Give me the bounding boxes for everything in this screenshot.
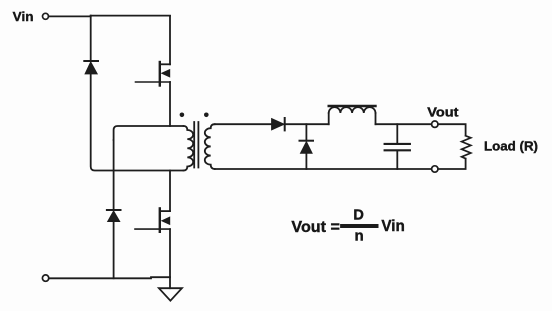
wire left branch to primary bottom lead bbox=[91, 74, 184, 171]
wire D4 branch bbox=[305, 124, 307, 141]
wire left branch upper bbox=[90, 16, 92, 61]
svg-text:Load (R): Load (R) bbox=[484, 138, 538, 153]
wire D4 to bottom lead bbox=[305, 153, 307, 169]
transistor Q2 bbox=[135, 208, 170, 231]
ground bbox=[159, 288, 182, 301]
svg-text:Vin: Vin bbox=[13, 9, 34, 24]
svg-text:D: D bbox=[353, 207, 363, 223]
diode D1 bbox=[84, 61, 98, 74]
terminal Vout- bbox=[432, 166, 438, 172]
terminal Vout+ bbox=[432, 121, 438, 127]
transformer T1 secondary winding bbox=[205, 124, 215, 169]
wire capacitor bottom lead bbox=[396, 151, 398, 169]
wire bottom rail bbox=[49, 277, 170, 278]
polarity dot secondary bbox=[204, 113, 209, 118]
terminal Vin+ bbox=[43, 13, 49, 19]
wire Q1 drain bbox=[169, 16, 171, 64]
capacitor C1 bbox=[385, 144, 410, 150]
svg-text:n: n bbox=[355, 227, 364, 244]
resistor R load bbox=[462, 136, 471, 159]
inductor L1 bbox=[329, 106, 376, 124]
svg-text:Vout =: Vout = bbox=[291, 219, 340, 236]
wire load bottom bbox=[438, 159, 466, 169]
wire D2 to bottom rail bbox=[113, 222, 115, 279]
wire top rail bbox=[49, 15, 170, 18]
transistor Q1 bbox=[136, 62, 171, 86]
svg-text:Vin: Vin bbox=[381, 218, 405, 235]
diode D2 bbox=[107, 210, 121, 222]
wire D2 branch bbox=[113, 140, 115, 210]
wire primary top lead bbox=[114, 126, 184, 140]
diode D3 bbox=[272, 118, 285, 130]
formula Vout = D/n Vin bbox=[291, 207, 405, 244]
diode D4 bbox=[300, 141, 314, 154]
wire secondary bottom lead bbox=[215, 168, 432, 170]
wire Vout to load bbox=[438, 124, 466, 135]
wire D3 to inductor bbox=[285, 123, 329, 125]
svg-text:Vout: Vout bbox=[427, 105, 459, 120]
wire Q2 drain bbox=[169, 171, 171, 212]
transformer T1 core bbox=[194, 122, 198, 168]
wire Q1 source to primary top lead bbox=[169, 82, 171, 126]
transformer T1 primary winding bbox=[184, 126, 194, 171]
wire inductor to Vout bbox=[376, 123, 432, 125]
wire Q2 source to ground bbox=[169, 229, 171, 288]
polarity dot primary bbox=[180, 113, 185, 118]
terminal Vin- bbox=[42, 275, 48, 281]
wire secondary top lead bbox=[215, 123, 272, 125]
wire capacitor top lead bbox=[396, 124, 398, 143]
